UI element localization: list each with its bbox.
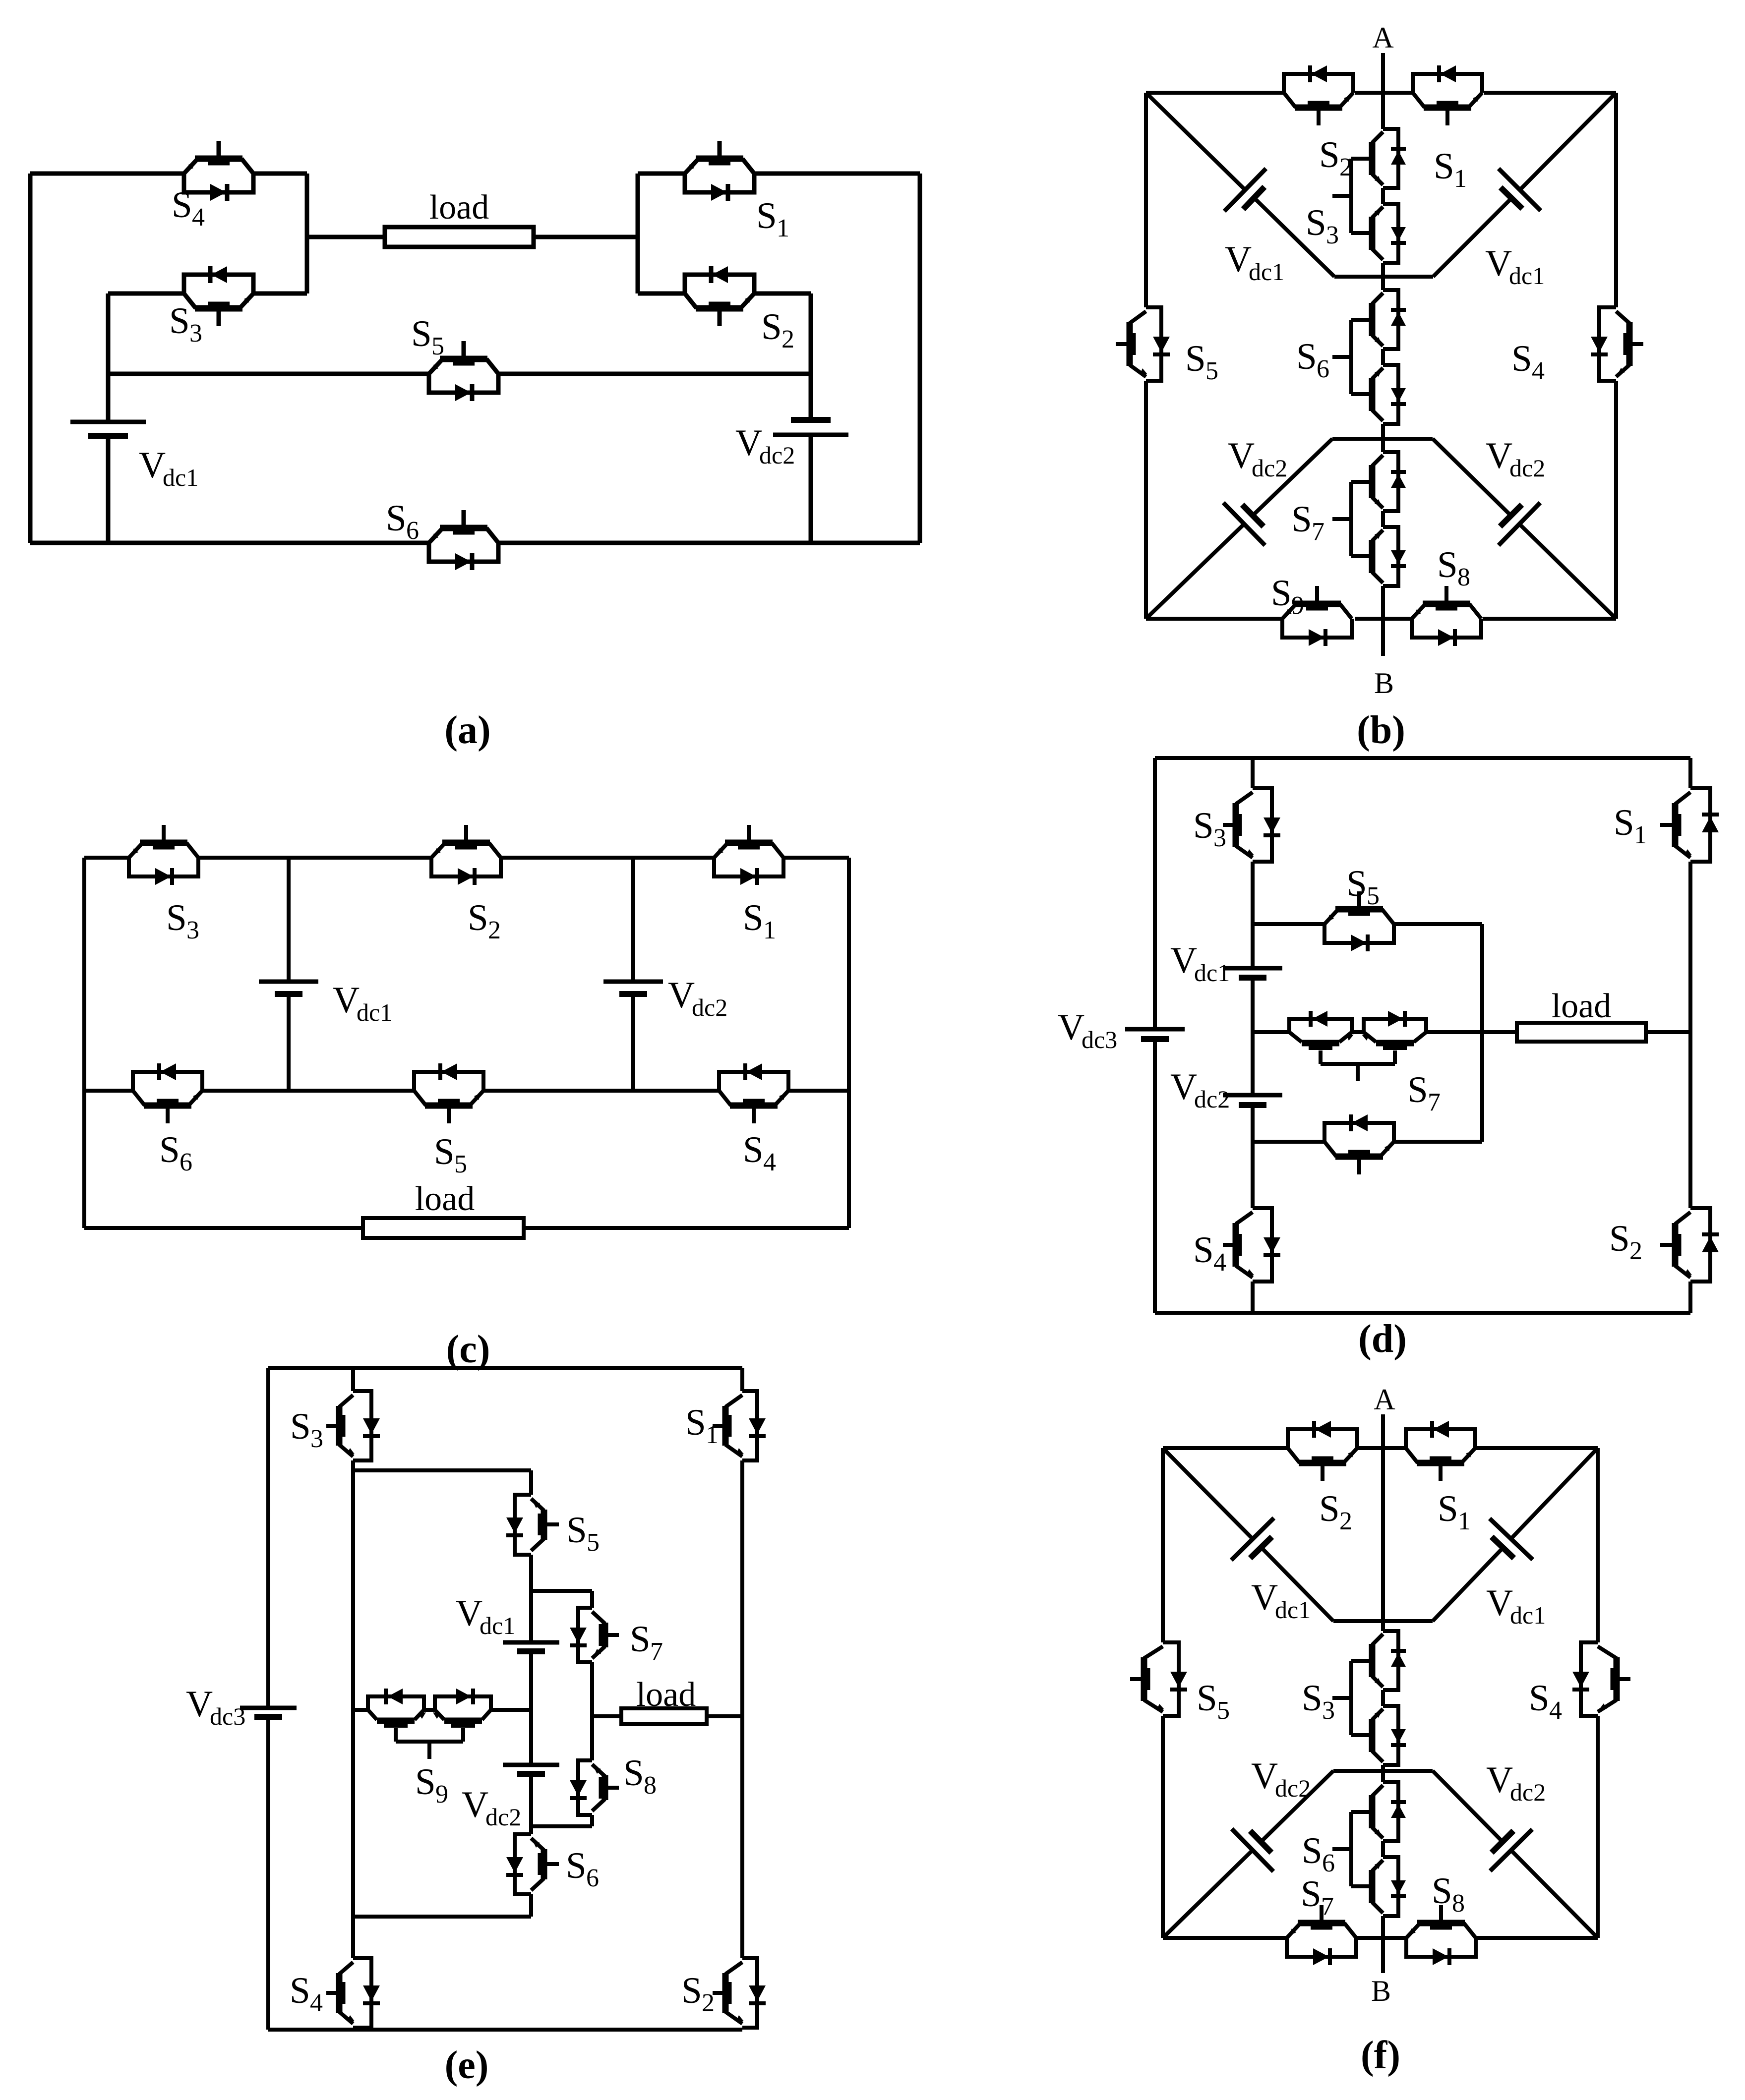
label Vdc2 right (f) (1486, 1759, 1546, 1806)
label S2 (c) (468, 897, 501, 944)
svg-text:S: S (1301, 1873, 1322, 1915)
svg-text:dc1: dc1 (163, 464, 198, 491)
label S6 (c) (159, 1129, 192, 1176)
wire right border (c) (847, 858, 851, 1228)
label S3 (c) (166, 897, 199, 944)
svg-text:S: S (1306, 202, 1326, 243)
wire bottom edge (e) (268, 2028, 742, 2032)
wire pair1 to Vdc1 node (b) (1381, 263, 1385, 290)
label S3 (169, 300, 202, 348)
svg-text:6: 6 (1317, 355, 1329, 383)
wire right border middle (e) (740, 1460, 744, 1958)
label load (c) (415, 1180, 475, 1218)
svg-text:V: V (1251, 1577, 1278, 1618)
svg-text:4: 4 (310, 1989, 323, 2017)
svg-text:dc3: dc3 (210, 1702, 245, 1730)
svg-text:4: 4 (1549, 1696, 1562, 1725)
transistor pair S3 (f) (1332, 1631, 1406, 1765)
svg-text:dc2: dc2 (692, 993, 727, 1021)
label S8 (f) (1432, 1870, 1465, 1918)
svg-text:5: 5 (587, 1528, 600, 1557)
wire bottom edge (d) (1155, 1311, 1690, 1315)
transistor S1 (c) (714, 825, 783, 885)
svg-text:(e): (e) (445, 2043, 489, 2087)
svg-text:1: 1 (1458, 1507, 1471, 1535)
label Vdc2 (a) (735, 422, 795, 469)
wire Vdc2 lower (a) (809, 435, 813, 543)
svg-text:S: S (1434, 146, 1454, 187)
label Vdc1 right (f) (1486, 1582, 1546, 1629)
svg-text:6: 6 (406, 517, 419, 545)
wire inner leg top (e) (351, 1368, 355, 1391)
wire Vdc2 upper (a) (809, 293, 813, 420)
label Vdc2 (e) (462, 1784, 521, 1831)
svg-text:V: V (1170, 1066, 1197, 1108)
wire left border lower (e) (266, 1717, 270, 2030)
wire pair S3 to Vdc2 (f) (1381, 1765, 1385, 1782)
svg-text:dc1: dc1 (1510, 1601, 1546, 1629)
battery Vdc1 (a) (70, 422, 146, 436)
svg-text:load: load (636, 1676, 696, 1714)
svg-text:1: 1 (1454, 165, 1467, 193)
wire S5 vertical (d) (1480, 924, 1484, 1142)
wire right border bottom (d) (1688, 1282, 1692, 1313)
transistor S5 (c) (414, 1063, 483, 1123)
svg-text:S: S (1319, 134, 1340, 175)
svg-text:1: 1 (706, 1421, 719, 1449)
svg-text:S: S (169, 300, 190, 342)
label S7 (b) (1291, 499, 1324, 546)
transistor S4 (d) (1223, 1208, 1280, 1282)
label S5 (f) (1197, 1678, 1230, 1725)
label S3 (f) (1302, 1678, 1335, 1725)
svg-text:S: S (1319, 1488, 1340, 1529)
transistor S8 (b) (1412, 586, 1481, 646)
svg-text:S: S (290, 1406, 311, 1447)
transistor S4 (184, 141, 253, 201)
label Vdc1 (a) (139, 445, 198, 491)
wire load left (e) (592, 1714, 621, 1718)
svg-text:S: S (166, 897, 187, 938)
wire Vdc2 horizontal (b) (1332, 437, 1433, 441)
label Vdc2 left (f) (1251, 1755, 1311, 1802)
transistor S3 (c) (129, 825, 198, 885)
svg-text:B: B (1374, 667, 1394, 700)
label Vdc1 left (b) (1225, 239, 1284, 286)
svg-text:S: S (1185, 338, 1206, 379)
transistor bidirectional S7 (d) (1289, 1011, 1426, 1081)
svg-text:dc2: dc2 (1252, 454, 1287, 482)
label Vdc1 (d) (1170, 940, 1230, 987)
label S3 (b) (1306, 202, 1339, 249)
wire S5 rail right (a) (498, 372, 811, 376)
wire load branch right (a) (534, 235, 638, 239)
label S1 (c) (743, 897, 776, 944)
transistor S9 (b) (1282, 586, 1352, 646)
wire inner leg Vdc2-S4 (d) (1251, 1105, 1255, 1208)
load resistor (a) (385, 227, 534, 247)
label S7 (e) (630, 1619, 663, 1666)
svg-text:1: 1 (763, 916, 776, 944)
transistor S5 (d) (1324, 891, 1394, 951)
transistor lower clamp switch (d) (1324, 1114, 1394, 1174)
wire S7 leg upper (e) (590, 1591, 594, 1608)
svg-text:5: 5 (1205, 357, 1218, 385)
wire left border lower (d) (1153, 1039, 1157, 1313)
transistor S8 (e) (570, 1760, 619, 1815)
svg-text:2: 2 (1339, 153, 1352, 181)
svg-text:S: S (685, 1402, 706, 1443)
transistor pair S6 (f) (1332, 1782, 1406, 1916)
wire top edge (b) (1146, 91, 1616, 95)
battery Vdc3 (e) (240, 1708, 297, 1717)
svg-text:S: S (172, 184, 192, 226)
svg-text:S: S (1193, 1229, 1214, 1271)
battery Vdc2 (c) (603, 982, 663, 994)
wire inner leg top (d) (1251, 758, 1255, 788)
wire right border bottom (e) (740, 2028, 744, 2030)
svg-text:6: 6 (1322, 1849, 1335, 1877)
label S6 (386, 498, 419, 545)
label S8 (e) (623, 1752, 657, 1800)
wire inner leg bottom (d) (1251, 1282, 1255, 1313)
label Vdc1 (e) (456, 1593, 515, 1639)
wire midleg S5-Vdc1 (e) (529, 1555, 533, 1642)
wire right border middle (d) (1688, 862, 1692, 1208)
node B (b) (1374, 667, 1394, 700)
wire S9 row right (e) (491, 1708, 531, 1712)
svg-text:(c): (c) (446, 1328, 490, 1371)
wire Vdc2 branch lower (c) (631, 994, 635, 1091)
label S2 (e) (681, 1970, 715, 2017)
wire S9 row left (e) (353, 1708, 368, 1712)
svg-text:S: S (1197, 1678, 1217, 1719)
svg-text:2: 2 (782, 325, 794, 353)
wire right border top (d) (1688, 758, 1692, 788)
svg-text:8: 8 (1457, 563, 1470, 591)
transistor pair S6 (1332, 290, 1406, 424)
svg-text:B: B (1371, 1975, 1391, 2007)
label S4 (f) (1529, 1678, 1562, 1725)
label S5 (411, 313, 444, 360)
wire S8 leg lower (e) (590, 1815, 594, 1826)
svg-text:4: 4 (1213, 1248, 1226, 1277)
wire Vdc1 lower (a) (106, 436, 111, 543)
wire midleg Vdc2-S6 (e) (529, 1774, 533, 1834)
wire node A lead (b) (1381, 53, 1385, 129)
label S1 (b) (1434, 146, 1467, 193)
battery Vdc1 right diagonal (f) (1433, 1448, 1598, 1621)
svg-text:dc1: dc1 (480, 1612, 515, 1639)
label S6 (b) (1296, 336, 1329, 383)
svg-text:S: S (1291, 499, 1312, 540)
wire midleg S6-bottom (e) (529, 1894, 533, 1917)
label S4 (d) (1193, 1229, 1226, 1277)
label load (a) (429, 188, 489, 227)
node B (f) (1371, 1975, 1391, 2007)
svg-text:V: V (1058, 1007, 1084, 1048)
transistor S2 (d) (1660, 1208, 1719, 1282)
transistor S8 (f) (1406, 1905, 1476, 1965)
wire pair S6 to bottom (f) (1381, 1916, 1385, 1973)
label S1 (f) (1438, 1488, 1471, 1535)
battery Vdc2 (a) (773, 420, 848, 435)
svg-text:dc2: dc2 (485, 1803, 521, 1831)
svg-text:V: V (1251, 1755, 1278, 1797)
label Vdc3 (d) (1058, 1007, 1117, 1053)
label S4 (c) (743, 1129, 776, 1176)
caption (c) (446, 1328, 490, 1371)
svg-text:dc2: dc2 (1509, 454, 1545, 482)
wire S8 bottom stub (e) (531, 1824, 592, 1828)
svg-text:(b): (b) (1357, 708, 1405, 752)
svg-text:S: S (681, 1970, 702, 2011)
label Vdc1 (c) (333, 980, 392, 1026)
svg-text:1: 1 (1634, 821, 1647, 849)
svg-text:V: V (139, 445, 166, 486)
battery Vdc1 (d) (1223, 968, 1282, 978)
wire inner leg S3-Vdc1 (d) (1251, 862, 1255, 968)
battery Vdc2 left diagonal (f) (1163, 1771, 1333, 1938)
transistor top-right switch (b) (1413, 65, 1482, 125)
svg-text:A: A (1374, 1383, 1395, 1416)
svg-text:S: S (434, 1131, 455, 1172)
label S5 (c) (434, 1131, 467, 1178)
svg-text:7: 7 (1312, 518, 1324, 546)
label Vdc1 right (b) (1485, 243, 1545, 290)
svg-text:S: S (1432, 1870, 1452, 1912)
wire S5 branch left (d) (1253, 922, 1324, 926)
svg-text:V: V (456, 1593, 482, 1634)
svg-text:V: V (1486, 435, 1512, 476)
svg-text:S: S (1614, 802, 1634, 843)
label S9 (e) (415, 1761, 448, 1808)
svg-text:3: 3 (1326, 221, 1339, 249)
svg-text:S: S (566, 1845, 587, 1886)
wire pair S6 to Vdc2 node (b) (1381, 424, 1385, 452)
svg-text:S: S (290, 1970, 310, 2011)
svg-text:V: V (462, 1784, 488, 1825)
label Vdc2 right (b) (1486, 435, 1545, 482)
wire pair S7 to B (b) (1381, 586, 1385, 656)
battery Vdc3 (d) (1125, 1029, 1185, 1039)
transistor S5 (f) (1130, 1642, 1187, 1716)
svg-text:3: 3 (186, 916, 199, 944)
label S7 (f) (1301, 1873, 1334, 1921)
transistor S2 (f) (1288, 1421, 1357, 1481)
transistor S2 (e) (713, 1958, 766, 2028)
wire S3 rail left (a) (108, 292, 184, 296)
transistor S3 (e) (326, 1391, 380, 1460)
wire S1 to right border (a) (754, 172, 920, 176)
wire S7 row right (d) (1426, 1030, 1517, 1034)
wire top branch (e) (353, 1468, 531, 1472)
label S5 (e) (566, 1510, 600, 1557)
label S8 (b) (1437, 544, 1470, 591)
label S4 (e) (290, 1970, 323, 2017)
wire Vdc1 branch upper (c) (287, 858, 291, 982)
svg-text:S: S (756, 195, 777, 236)
wire load branch left (a) (307, 235, 385, 239)
label S1 (e) (685, 1402, 719, 1449)
wire Vdc1 upper (a) (106, 293, 111, 422)
svg-text:6: 6 (180, 1148, 192, 1176)
label Vdc2 (d) (1170, 1066, 1230, 1113)
transistor S4 (b) (1591, 307, 1643, 381)
label Vdc2 (c) (668, 975, 727, 1021)
svg-text:S: S (743, 897, 764, 938)
wire S5 branch right (d) (1394, 922, 1482, 926)
svg-text:6: 6 (586, 1864, 599, 1892)
svg-text:7: 7 (650, 1637, 663, 1666)
svg-text:S: S (411, 313, 432, 354)
svg-text:S: S (1346, 863, 1367, 904)
wire bottom edge (b) (1146, 617, 1616, 621)
svg-text:(f): (f) (1361, 2034, 1400, 2077)
svg-text:S: S (1529, 1678, 1550, 1719)
wire S3 to bridge (a) (253, 292, 307, 296)
wire load rail right (c) (524, 1226, 849, 1230)
wire top rail (c) (84, 856, 849, 860)
wire top edge (e) (268, 1366, 742, 1370)
transistor top-left switch (b) (1284, 65, 1353, 125)
svg-text:dc2: dc2 (1194, 1085, 1230, 1113)
load resistor (e) (621, 1708, 707, 1724)
svg-text:V: V (333, 980, 360, 1021)
svg-text:S: S (1193, 805, 1214, 846)
transistor pair S2 S3 (1332, 129, 1406, 263)
svg-text:V: V (668, 975, 695, 1016)
label S6 (f) (1302, 1830, 1335, 1877)
svg-text:(d): (d) (1358, 1317, 1407, 1361)
label S1 (d) (1614, 802, 1647, 849)
caption (d) (1358, 1317, 1407, 1361)
wire S2 rail left (a) (638, 292, 685, 296)
svg-text:V: V (1225, 239, 1252, 280)
svg-text:S: S (468, 897, 488, 938)
wire bottom rail right (a) (498, 541, 920, 545)
svg-text:V: V (1485, 243, 1512, 284)
wire load rail left (c) (84, 1226, 363, 1230)
svg-text:3: 3 (310, 1425, 323, 1453)
svg-text:S: S (1438, 1488, 1458, 1529)
svg-text:3: 3 (1322, 1696, 1335, 1725)
label S2 (f) (1319, 1488, 1352, 1535)
svg-text:S: S (1609, 1218, 1630, 1259)
svg-text:2: 2 (1339, 1507, 1352, 1535)
battery Vdc2 (d) (1223, 1095, 1282, 1105)
battery Vdc1 left diagonal (b) (1146, 93, 1334, 277)
svg-text:V: V (1228, 435, 1255, 476)
label load (d) (1552, 987, 1612, 1025)
load resistor (d) (1517, 1023, 1646, 1042)
svg-text:3: 3 (189, 319, 202, 348)
battery Vdc2 right diagonal (b) (1433, 439, 1616, 619)
wire inner leg bottom (e) (351, 2028, 355, 2030)
transistor S4 (c) (719, 1063, 788, 1123)
svg-text:2: 2 (702, 1989, 715, 2017)
svg-text:S: S (1407, 1069, 1428, 1110)
wire right border (b) (1614, 93, 1618, 619)
wire midleg Vdc1-S9row (e) (529, 1651, 533, 1765)
wire vertical right bridge (a) (636, 174, 640, 293)
svg-text:S: S (623, 1752, 644, 1794)
svg-text:S: S (386, 498, 407, 539)
transistor S4 (f) (1572, 1642, 1630, 1716)
svg-text:S: S (566, 1510, 587, 1551)
wire top rail left (a) (30, 172, 184, 176)
wire midleg to S5 (e) (529, 1470, 533, 1495)
label S3 (d) (1193, 805, 1226, 852)
svg-text:S: S (1302, 1830, 1323, 1871)
svg-text:S: S (1296, 336, 1317, 377)
wire right border (f) (1596, 1448, 1600, 1938)
wire left border (c) (82, 858, 86, 1228)
load resistor (c) (363, 1218, 524, 1238)
svg-text:9: 9 (435, 1780, 448, 1808)
label Vdc1 left (f) (1251, 1577, 1311, 1624)
transistor S4 (e) (326, 1958, 380, 2028)
svg-text:4: 4 (1532, 357, 1545, 385)
wire node A lead (f) (1381, 1414, 1385, 1631)
svg-text:3: 3 (1213, 824, 1226, 852)
transistor S1 (f) (1406, 1421, 1475, 1481)
svg-text:S: S (1271, 573, 1292, 614)
svg-text:dc1: dc1 (1509, 262, 1545, 290)
svg-text:S: S (159, 1129, 180, 1170)
svg-text:S: S (1511, 338, 1532, 379)
svg-text:dc1: dc1 (1249, 258, 1284, 286)
transistor S7 (f) (1287, 1905, 1356, 1965)
svg-text:dc3: dc3 (1082, 1026, 1117, 1053)
wire top rail right cell (a) (638, 172, 685, 176)
svg-text:load: load (415, 1180, 475, 1218)
svg-text:load: load (1552, 987, 1612, 1025)
svg-text:V: V (1486, 1759, 1513, 1801)
svg-text:2: 2 (1629, 1237, 1642, 1265)
wire load to border (d) (1646, 1030, 1690, 1034)
svg-text:V: V (735, 422, 762, 464)
wire bottom rail (c) (84, 1089, 849, 1093)
battery Vdc1 (e) (503, 1642, 559, 1651)
label Vdc3 (e) (186, 1684, 245, 1730)
svg-text:V: V (186, 1684, 213, 1725)
battery Vdc2 left diagonal (b) (1146, 439, 1332, 619)
transistor S1 (e) (713, 1391, 766, 1460)
transistor pair S7 (1332, 452, 1406, 586)
wire bottom rail left (a) (30, 541, 429, 545)
wire left border (b) (1144, 93, 1148, 619)
node A (f) (1374, 1383, 1395, 1416)
label S2 (d) (1609, 1218, 1642, 1265)
battery Vdc2 (e) (503, 1765, 559, 1774)
label S9 (b) (1271, 573, 1304, 620)
svg-text:V: V (1486, 1582, 1513, 1624)
transistor S1 (d) (1660, 788, 1719, 862)
wire lower branch right (d) (1394, 1140, 1482, 1144)
wire Vdc2 branch upper (c) (631, 858, 635, 982)
label S4 (172, 184, 205, 232)
wire right border (a) (918, 174, 922, 543)
svg-text:(a): (a) (444, 708, 490, 752)
transistor S5 (e) (506, 1495, 559, 1555)
wire S7 branch top (e) (531, 1589, 592, 1593)
battery Vdc2 right diagonal (f) (1433, 1771, 1598, 1938)
svg-text:8: 8 (644, 1771, 657, 1800)
transistor S7 (e) (570, 1608, 619, 1662)
svg-text:7: 7 (1321, 1892, 1334, 1921)
label load (e) (636, 1676, 696, 1714)
